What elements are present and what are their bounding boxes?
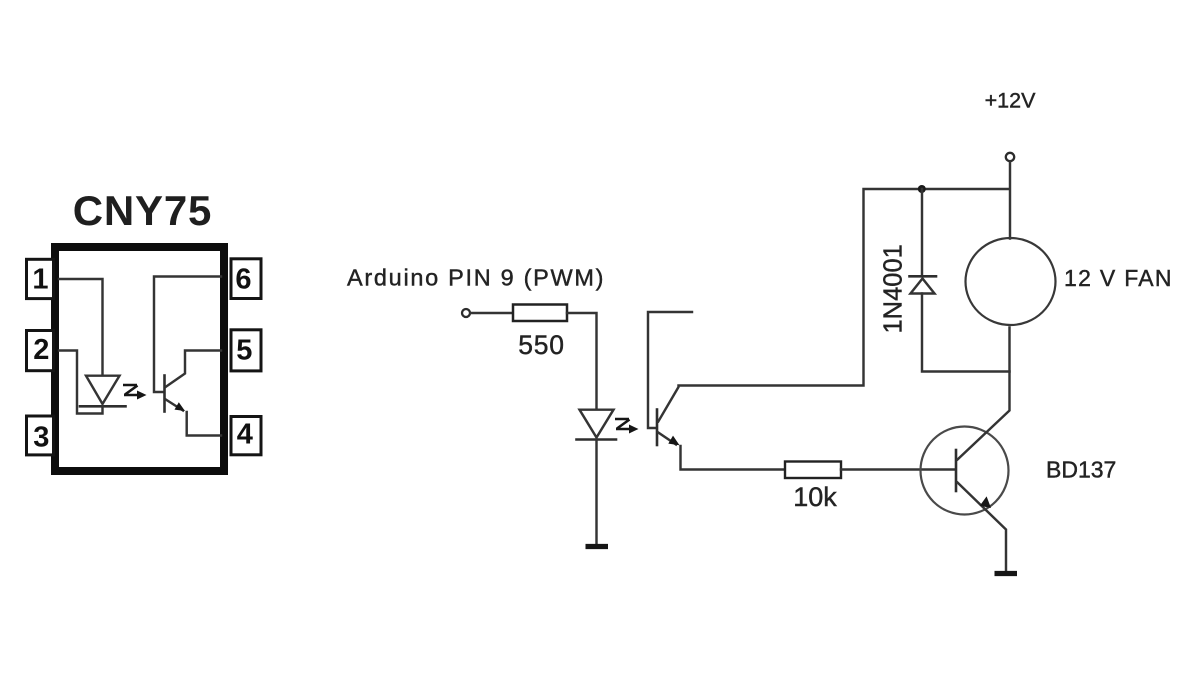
svg-text:1: 1 (32, 264, 48, 296)
svg-text:550: 550 (518, 330, 565, 360)
svg-text:CNY75: CNY75 (73, 187, 212, 234)
svg-text:3: 3 (33, 421, 49, 453)
svg-text:4: 4 (237, 419, 253, 451)
svg-text:Arduino PIN 9 (PWM): Arduino PIN 9 (PWM) (347, 265, 605, 291)
svg-text:12 V FAN: 12 V FAN (1064, 265, 1173, 291)
svg-text:5: 5 (236, 334, 252, 366)
svg-text:10k: 10k (793, 482, 837, 512)
svg-text:BD137: BD137 (1046, 457, 1116, 483)
svg-text:1N4001: 1N4001 (880, 244, 908, 333)
svg-text:2: 2 (33, 334, 49, 366)
svg-text:+12V: +12V (985, 89, 1036, 113)
svg-text:6: 6 (235, 263, 251, 295)
